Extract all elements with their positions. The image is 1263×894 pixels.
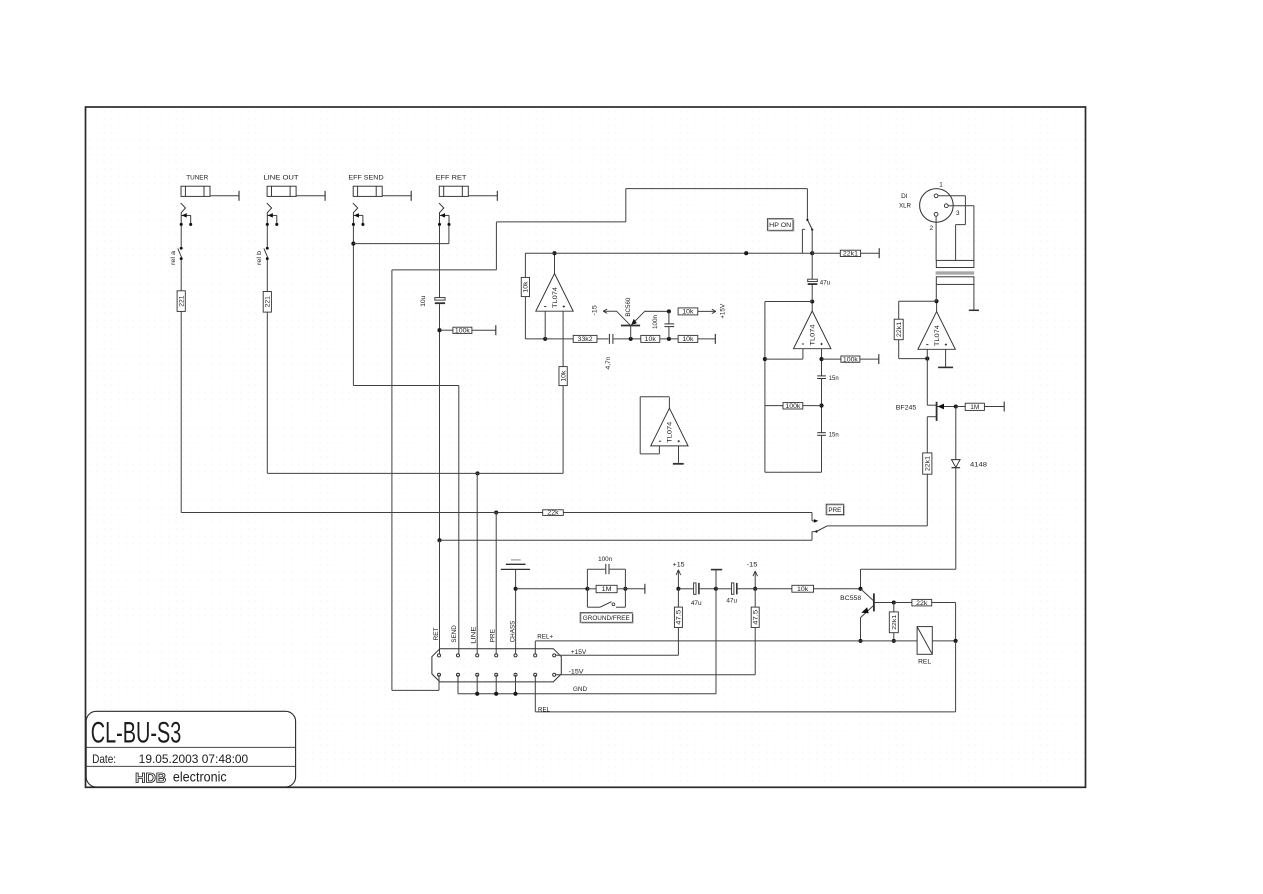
svg-text:+15: +15 [673,562,685,569]
svg-text:2: 2 [930,225,934,232]
svg-text:221: 221 [178,295,185,307]
svg-text:47.5: 47.5 [677,609,683,625]
svg-text:LINE OUT: LINE OUT [263,175,298,182]
svg-text:DI: DI [901,193,908,200]
svg-text:100k: 100k [843,357,859,363]
svg-text:EFF SEND: EFF SEND [348,175,383,182]
svg-text:HP ON: HP ON [769,222,791,229]
svg-text:-15: -15 [747,562,758,569]
svg-text:TUNER: TUNER [186,175,208,182]
svg-text:100k: 100k [785,404,801,410]
svg-text:47u: 47u [820,279,831,286]
svg-text:TL074: TL074 [667,421,674,442]
svg-text:221: 221 [265,296,272,308]
svg-text:GND: GND [573,686,587,693]
svg-text:3: 3 [956,210,960,217]
svg-text:33k2: 33k2 [578,337,594,343]
svg-text:RET: RET [433,627,440,640]
svg-text:1M: 1M [970,405,979,411]
svg-text:BC560: BC560 [625,297,632,317]
svg-text:BC558: BC558 [840,595,861,602]
svg-text:electronic: electronic [173,769,227,784]
svg-text:100n: 100n [598,556,613,563]
svg-text:22k: 22k [916,601,928,607]
svg-text:22k1: 22k1 [843,251,859,257]
svg-text:SEND: SEND [451,625,458,643]
svg-text:-15: -15 [592,305,599,316]
svg-text:HDB: HDB [135,770,166,786]
svg-text:4,7n: 4,7n [605,356,612,370]
svg-text:REL: REL [538,706,550,713]
svg-text:EFF RET: EFF RET [436,175,467,182]
svg-text:GROUND/FREE: GROUND/FREE [583,615,631,622]
svg-text:10k: 10k [797,587,809,593]
svg-text:LINE: LINE [471,626,478,644]
svg-text:10k: 10k [682,337,694,343]
svg-text:rel b: rel b [256,250,263,265]
svg-text:47u: 47u [691,600,702,607]
svg-text:REL+: REL+ [537,634,553,641]
svg-text:4148: 4148 [970,461,987,468]
svg-text:+15V: +15V [719,303,726,319]
svg-text:15n: 15n [829,376,839,382]
svg-text:Date:: Date: [92,752,116,766]
svg-text:47.5: 47.5 [753,609,759,625]
svg-text:100n: 100n [652,314,659,329]
svg-text:22k1: 22k1 [892,615,898,630]
svg-text:22k1: 22k1 [896,321,903,337]
svg-text:PRE: PRE [490,629,497,643]
svg-text:TL074: TL074 [810,324,817,345]
svg-text:100k: 100k [455,328,471,334]
svg-text:CL-BU-S3: CL-BU-S3 [91,716,182,749]
svg-text:TL074: TL074 [552,287,559,308]
svg-text:10u: 10u [420,295,427,307]
svg-text:REL: REL [918,658,931,665]
svg-text:22k: 22k [547,511,559,517]
svg-text:TL074: TL074 [934,325,941,346]
svg-text:10k: 10k [645,337,657,343]
svg-text:1: 1 [939,182,943,189]
svg-text:10k: 10k [682,310,694,316]
svg-text:22k1: 22k1 [925,456,932,472]
svg-text:CHASS: CHASS [509,620,516,642]
svg-text:19.05.2003 07:48:00: 19.05.2003 07:48:00 [139,752,249,766]
svg-text:XLR: XLR [899,203,911,210]
svg-text:47u: 47u [726,598,737,605]
svg-text:10k: 10k [560,370,567,382]
svg-text:PRE: PRE [828,507,841,514]
svg-text:+15V: +15V [571,649,587,656]
svg-text:1M: 1M [602,586,612,593]
svg-text:rel a: rel a [170,250,177,265]
svg-text:15n: 15n [829,433,839,439]
svg-text:BF245: BF245 [896,405,917,412]
svg-text:10k: 10k [523,280,530,292]
